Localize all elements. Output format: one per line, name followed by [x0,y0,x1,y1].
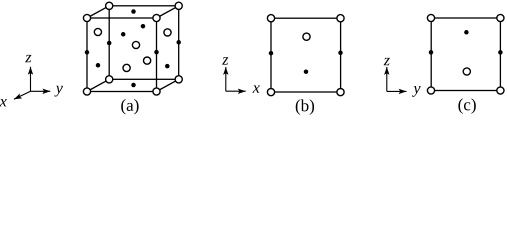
interior atom M [144,57,151,64]
dot atom B [141,24,146,29]
caption (b) [296,99,314,114]
corner atom BTL [106,2,113,9]
wire connector bottom-right [157,79,179,91]
axes of (c) [387,67,407,91]
axis label y (c) [412,86,420,97]
wire square (c) [431,18,500,91]
axis label z (a) [25,55,31,62]
dot atom b-right edge [338,51,343,56]
interior atom c-lower [463,68,470,75]
wire back face [109,6,179,80]
corner atom c-BR [497,87,504,94]
wire front face [87,18,157,92]
axes of (a) [14,67,50,100]
corner atom BBR [175,76,182,83]
axes of (b) [226,67,246,91]
corner atom b-BL [267,89,274,96]
axis label x (b) [253,85,260,92]
wire connector bottom-left [87,79,109,91]
interior atom G [164,29,171,36]
z axis arrow (a) [30,67,32,92]
corner atom FBL [83,88,90,95]
interior atom F [132,41,139,48]
wire connector top-right [157,6,179,18]
caption (a) [121,99,138,114]
interior atom b-upper [303,33,310,40]
corner atom b-TR [337,15,344,22]
dot atom c-right edge [498,50,503,55]
corner atom c-BL [427,87,434,94]
dot atom b-lower [304,69,309,74]
open-circle atoms of (a) [83,2,182,95]
interior atom K [123,64,130,71]
axis label z (c) [384,58,390,65]
interior atom C [94,28,101,35]
y axis arrow (c) [387,90,407,92]
corner atom BTR [175,2,182,9]
x axis arrow (b) [226,90,246,92]
dot atom A (top face centre) [131,9,136,14]
dot atom H (back-right edge) [176,40,181,45]
dot atom c-left edge [429,50,434,55]
y axis arrow (a) [31,90,51,92]
dot atom E [121,32,126,37]
corner atom FBR [153,88,160,95]
dot atom N [165,64,170,69]
z axis arrow (c) [386,67,388,91]
dot atom O (bottom face centre) [131,83,136,88]
dot atom J [96,63,101,68]
dot atom D (back-left edge) [107,41,112,46]
axis label z (b) [222,57,228,64]
dot atom I (front-left edge) [85,50,90,55]
corner atom BBL [106,76,113,83]
x axis arrow (a) [14,91,31,99]
wire square (b) [271,18,341,92]
corner atom FTR [153,14,160,21]
corner atom c-TR [497,14,504,21]
filled-dot atoms of (a) [85,9,181,87]
corner atom c-TL [427,14,434,21]
dot atom L (front-right edge) [154,50,159,55]
z axis arrow (b) [225,67,227,91]
corner atom b-TL [267,15,274,22]
wire connector top-left [87,6,109,18]
axis label x (a) [0,99,7,106]
caption (c) [458,98,475,113]
corner atom FTL [83,14,90,21]
corner atom b-BR [337,89,344,96]
dot atom c-upper [464,30,469,35]
dot atom b-left edge [269,51,274,56]
axis label y (a) [54,86,62,97]
